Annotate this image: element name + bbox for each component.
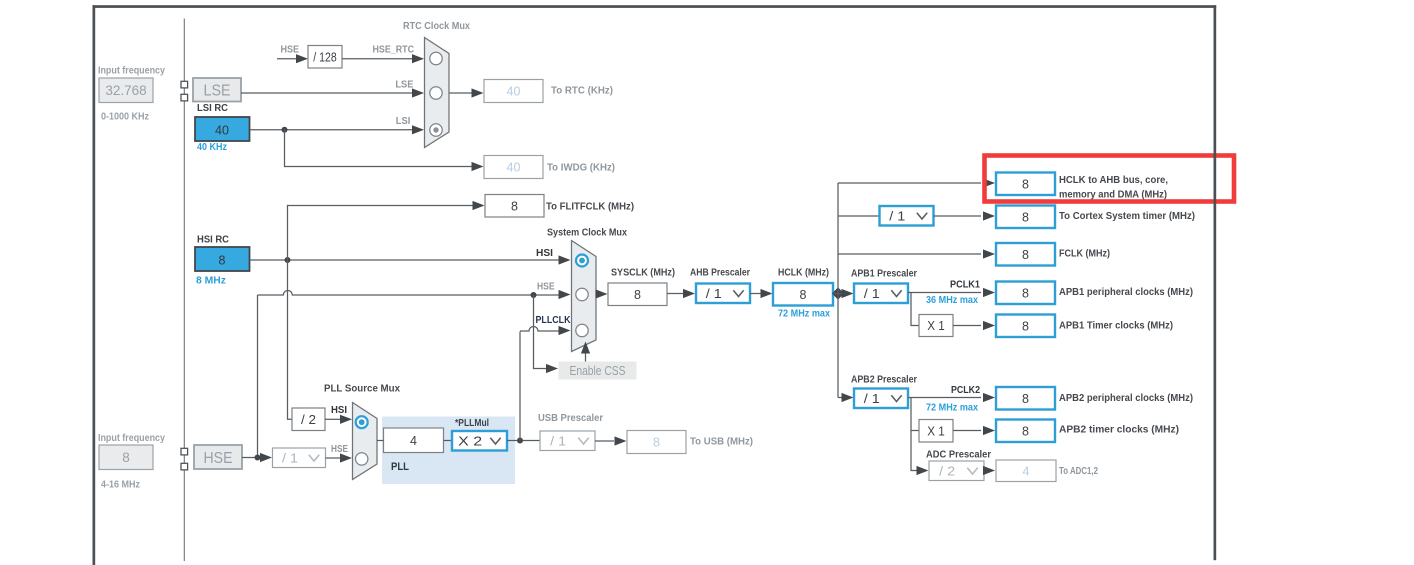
- arrow into APB2 prescaler: [842, 393, 854, 402]
- svg-text:HSE: HSE: [204, 450, 233, 467]
- svg-text:HCLK to AHB bus, core,: HCLK to AHB bus, core,: [1059, 174, 1168, 186]
- wire AHB prescaler to HCLK: [750, 293, 761, 295]
- arrow into To USB box: [615, 436, 627, 445]
- dropdown PLLMul X2: [452, 431, 507, 451]
- output box APB2 timer value 8: [996, 420, 1055, 443]
- wire APB1 to PCLK1 output: [908, 292, 981, 294]
- svg-text:*PLLMul: *PLLMul: [455, 418, 489, 429]
- pin square HSE top: [181, 448, 188, 455]
- svg-text:/ 1: / 1: [889, 209, 905, 223]
- svg-text:8: 8: [122, 450, 130, 465]
- svg-text:AHB Prescaler: AHB Prescaler: [690, 267, 750, 279]
- wire LSI branch to IWDG: [285, 130, 473, 167]
- arrow into APB2 peripheral box: [983, 393, 995, 402]
- wire APB2 branch to X1: [911, 430, 919, 432]
- pin square LSE top: [181, 81, 188, 88]
- svg-text:SYSCLK (MHz): SYSCLK (MHz): [611, 267, 675, 279]
- svg-text:8: 8: [1022, 392, 1029, 406]
- svg-text:/ 1: / 1: [282, 451, 298, 465]
- wire APB1 branch to X1: [911, 293, 919, 326]
- svg-text:8: 8: [634, 288, 641, 302]
- svg-text:HSE: HSE: [331, 443, 348, 455]
- oscillator LSI RC value box 40: [195, 117, 250, 141]
- svg-text:To Cortex System timer (MHz): To Cortex System timer (MHz): [1059, 210, 1195, 222]
- output box To IWDG value 40: [484, 156, 543, 179]
- arrow into /1 HSE prescaler: [260, 453, 272, 462]
- wire APB2 branch vertical: [911, 398, 917, 471]
- output box APB2 peripheral value 8: [996, 387, 1055, 410]
- input box 32.768 KHz: [99, 78, 153, 103]
- svg-text:USB Prescaler: USB Prescaler: [538, 412, 603, 424]
- svg-text:40 KHz: 40 KHz: [197, 141, 227, 153]
- arrow PLLCLK into System Clock Mux: [559, 326, 571, 335]
- svg-text:4: 4: [410, 434, 417, 448]
- wire HSE up branch: [257, 295, 259, 458]
- radio HSE input: [576, 288, 588, 300]
- svg-text:32.768: 32.768: [105, 83, 146, 98]
- svg-text:8 MHz: 8 MHz: [196, 275, 226, 287]
- mux System Clock Mux: [572, 241, 597, 352]
- svg-text:/ 1: / 1: [864, 287, 880, 301]
- svg-text:APB2 Prescaler: APB2 Prescaler: [851, 374, 917, 386]
- arrow into HCLK box: [761, 289, 773, 298]
- arrow into ADC prescaler: [917, 466, 929, 475]
- wire HCLK to APB1 prescaler: [833, 293, 843, 295]
- arrow /2 into PLL mux HSI: [340, 415, 352, 424]
- svg-text:/ 2: / 2: [301, 413, 316, 427]
- svg-text:PCLK2: PCLK2: [951, 384, 980, 396]
- svg-text:PCLK1: PCLK1: [950, 279, 980, 291]
- mux RTC Clock Mux: [425, 38, 450, 148]
- annotation red highlight rectangle: [985, 156, 1235, 202]
- arrow into FCLK box: [983, 249, 995, 258]
- arrow LSE into RTC mux: [412, 88, 424, 97]
- svg-text:/ 1: / 1: [706, 287, 722, 301]
- radio PLL HSE input: [356, 453, 368, 465]
- arrow into APB2 timer box: [983, 426, 995, 435]
- wire LSI to RTC mux: [250, 129, 415, 131]
- svg-text:To USB (MHz): To USB (MHz): [690, 436, 753, 448]
- wire Cortex prescaler to output: [934, 215, 982, 217]
- svg-text:APB1 Prescaler: APB1 Prescaler: [851, 268, 917, 280]
- svg-text:8: 8: [1022, 424, 1029, 438]
- svg-text:APB1 peripheral clocks (MHz): APB1 peripheral clocks (MHz): [1059, 286, 1193, 298]
- arrow into Enable CSS: [546, 364, 558, 373]
- svg-text:40: 40: [507, 85, 521, 99]
- svg-text:memory and DMA (MHz): memory and DMA (MHz): [1059, 189, 1167, 201]
- svg-text:8: 8: [1022, 177, 1029, 191]
- svg-text:HSE_RTC: HSE_RTC: [373, 44, 415, 56]
- svg-text:X 1: X 1: [927, 424, 945, 438]
- wire system mux output: [596, 293, 598, 295]
- dropdown AHB prescaler /1: [696, 284, 750, 304]
- dropdown Cortex prescaler /1: [880, 206, 934, 226]
- output box FCLK value 8: [996, 243, 1055, 266]
- wire HCLK vertical distribution: [837, 183, 839, 398]
- wire to Cortex prescaler: [838, 215, 880, 217]
- multiplier X1 box (APB1): [919, 315, 953, 337]
- wire /2 to PLL mux: [325, 418, 341, 420]
- svg-text:72 MHz max: 72 MHz max: [926, 402, 978, 414]
- svg-text:HSI: HSI: [331, 404, 347, 416]
- svg-text:LSE: LSE: [204, 83, 231, 100]
- svg-text:Input frequency: Input frequency: [98, 65, 165, 77]
- prescaler /2 box: [292, 408, 325, 431]
- junction HCLK diamond: [832, 287, 844, 299]
- arrow HSI into System Clock Mux: [559, 255, 571, 264]
- frame top border: [93, 5, 1217, 8]
- svg-text:72 MHz max: 72 MHz max: [778, 308, 830, 320]
- arrow into To FLITFCLK box: [473, 201, 485, 210]
- wire RTC mux output: [450, 92, 473, 94]
- wire X1 to APB2 timer output: [953, 430, 981, 432]
- oscillator HSE box: [194, 445, 242, 469]
- junction PLLCLK node: [517, 438, 523, 444]
- junction LSI branch: [282, 127, 288, 133]
- output box APB1 timer value 8: [996, 315, 1055, 338]
- wire X1 to APB1 timer output: [953, 325, 981, 327]
- svg-text:8: 8: [219, 254, 226, 268]
- wire /1 to PLL mux: [326, 457, 341, 459]
- dropdown ADC prescaler /2 (disabled): [929, 461, 984, 481]
- output box To FLITFCLK value 8: [485, 195, 544, 218]
- svg-text:PLL: PLL: [391, 461, 409, 473]
- svg-text:X 1: X 1: [927, 319, 945, 333]
- svg-text:X 2: X 2: [458, 434, 482, 448]
- svg-text:4-16 MHz: 4-16 MHz: [101, 479, 140, 491]
- output box HCLK to AHB value 8: [996, 173, 1055, 196]
- radio PLL HSI input (selected): [356, 416, 368, 428]
- svg-text:/ 1: / 1: [550, 434, 566, 448]
- output box APB1 peripheral value 8: [996, 282, 1055, 305]
- svg-text:HCLK (MHz): HCLK (MHz): [778, 267, 829, 279]
- arrow into APB1 peripheral box: [983, 288, 995, 297]
- wire PLLMul output to USB prescaler: [507, 440, 540, 442]
- mux PLL Source Mux: [353, 403, 378, 480]
- svg-text:8: 8: [653, 436, 660, 450]
- oscillator LSE box: [193, 78, 241, 102]
- svg-text:8: 8: [800, 288, 807, 302]
- wire PLL mux to 4 box: [377, 440, 384, 442]
- arrow into HCLK to AHB box: [983, 178, 995, 187]
- svg-text:LSI RC: LSI RC: [197, 102, 228, 114]
- svg-text:HSE: HSE: [537, 281, 555, 293]
- arrow into To ADC box: [983, 466, 995, 475]
- dropdown APB1 prescaler /1: [854, 284, 908, 304]
- arrow into /128: [296, 54, 308, 63]
- arrow /1 into PLL mux HSE: [340, 453, 352, 462]
- junction HSE output: [255, 455, 261, 461]
- value box HCLK 8: [773, 283, 833, 306]
- svg-text:System Clock Mux: System Clock Mux: [547, 227, 627, 239]
- value box SYSCLK 8: [608, 283, 667, 306]
- svg-text:To FLITFCLK (MHz): To FLITFCLK (MHz): [546, 201, 634, 213]
- junction HSE node at CSS branch: [531, 292, 537, 298]
- svg-text:4: 4: [1023, 464, 1030, 478]
- prescaler /128 box: [308, 46, 342, 69]
- arrow HSE_RTC into RTC mux: [412, 54, 424, 63]
- wire PLLCLK vertical: [519, 332, 521, 441]
- svg-text:/ 1: / 1: [864, 392, 880, 406]
- arrow Enable CSS into mux bottom: [581, 342, 590, 354]
- svg-text:40: 40: [507, 161, 521, 175]
- radio HSI input (selected): [576, 255, 588, 267]
- wire to FCLK output: [838, 253, 981, 255]
- svg-text:PLL Source Mux: PLL Source Mux: [324, 383, 400, 395]
- arrow into To IWDG box: [472, 162, 484, 171]
- wire HSI branch up to FLITFCLK: [288, 206, 474, 261]
- svg-text:8: 8: [1022, 286, 1029, 300]
- wire HSE box to /1: [242, 457, 260, 459]
- svg-text:0-1000 KHz: 0-1000 KHz: [101, 111, 149, 123]
- arrow into To Cortex box: [983, 211, 995, 220]
- svg-text:HSE: HSE: [281, 44, 300, 56]
- svg-text:LSI: LSI: [396, 115, 411, 127]
- radio LSE input: [430, 87, 442, 99]
- arrow into APB1 timer box: [983, 321, 995, 330]
- pin square HSE bottom: [181, 463, 188, 470]
- frame right border: [1214, 5, 1217, 560]
- svg-text:/ 128: / 128: [313, 50, 337, 64]
- oscillator HSI RC value box 8: [195, 247, 250, 271]
- arrow HSE into System Clock Mux: [559, 290, 571, 299]
- svg-text:HSI: HSI: [536, 247, 553, 259]
- output box To RTC value 40: [484, 80, 543, 103]
- dropdown APB2 prescaler /1: [854, 389, 908, 409]
- svg-text:APB2 timer clocks (MHz): APB2 timer clocks (MHz): [1059, 424, 1179, 436]
- svg-text:8: 8: [511, 199, 518, 213]
- button Enable CSS: [559, 362, 637, 380]
- svg-text:RTC Clock Mux: RTC Clock Mux: [403, 20, 470, 32]
- wire ADC prescaler to output: [983, 470, 986, 472]
- radio LSI input (selected): [430, 124, 442, 136]
- pll input value box 4: [384, 428, 444, 453]
- wire 4 box to PLLMul: [444, 440, 453, 442]
- svg-text:/ 2: / 2: [939, 464, 955, 478]
- wire HSE stub to /128: [277, 58, 298, 60]
- pin square LSE bottom: [181, 94, 188, 101]
- svg-text:LSE: LSE: [395, 79, 413, 91]
- wire HSE down to Enable CSS: [534, 295, 547, 369]
- wire HSI branch down to /2: [288, 260, 293, 419]
- arrow into SYSCLK box: [596, 289, 608, 298]
- svg-text:ADC Prescaler: ADC Prescaler: [926, 449, 991, 461]
- output box To Cortex value 8: [996, 206, 1055, 229]
- svg-text:HSI RC: HSI RC: [197, 234, 229, 246]
- dropdown USB prescaler /1 (disabled): [540, 431, 595, 451]
- radio HSE_RTC input: [430, 52, 442, 64]
- svg-text:To IWDG (KHz): To IWDG (KHz): [547, 162, 615, 174]
- wire LSE to RTC mux: [241, 92, 414, 94]
- svg-text:To ADC1,2: To ADC1,2: [1059, 465, 1098, 477]
- wire HSE to System Clock Mux with hop: [258, 291, 561, 295]
- svg-text:40: 40: [215, 124, 229, 138]
- wire USB prescaler to To USB box: [595, 440, 614, 442]
- wire PLLCLK up to system mux with hop: [520, 327, 560, 332]
- radio PLLCLK input: [576, 324, 588, 336]
- dropdown HSE prescaler /1 (disabled): [273, 448, 326, 468]
- svg-text:FCLK (MHz): FCLK (MHz): [1059, 248, 1110, 260]
- svg-text:APB1 Timer clocks (MHz): APB1 Timer clocks (MHz): [1059, 320, 1173, 332]
- node rail: left input vertical line: [183, 19, 185, 562]
- arrow into To RTC box: [472, 88, 484, 97]
- svg-text:PLLCLK: PLLCLK: [536, 314, 571, 326]
- junction HSI node: [285, 257, 291, 263]
- block PLL highlighted area: [382, 417, 515, 485]
- svg-text:To RTC (KHz): To RTC (KHz): [551, 85, 613, 97]
- output box To USB value 8: [627, 431, 686, 454]
- output box To ADC value 4: [996, 460, 1056, 482]
- svg-text:Input frequency: Input frequency: [98, 432, 165, 444]
- multiplier X1 box (APB2): [919, 420, 953, 443]
- arrow into AHB prescaler: [683, 289, 695, 298]
- wire SYSCLK to AHB prescaler: [667, 293, 683, 295]
- svg-text:8: 8: [1022, 248, 1029, 262]
- svg-text:APB2 peripheral clocks (MHz): APB2 peripheral clocks (MHz): [1059, 392, 1193, 404]
- svg-text:36 MHz max: 36 MHz max: [926, 294, 978, 306]
- input box 8 MHz: [99, 445, 153, 470]
- arrow LSI into RTC mux: [412, 125, 424, 134]
- svg-text:8: 8: [1022, 210, 1029, 224]
- wire to HCLK AHB output: [838, 182, 981, 184]
- svg-text:Enable CSS: Enable CSS: [570, 364, 626, 378]
- wire /128 to RTC mux: [342, 58, 414, 60]
- wire HCLK to APB2 prescaler: [838, 397, 843, 399]
- svg-text:8: 8: [1022, 319, 1029, 333]
- arrow into APB1 prescaler: [842, 289, 854, 298]
- frame left border: [93, 5, 96, 565]
- wire HSI RC to System Clock Mux: [250, 259, 561, 261]
- wire APB2 to PCLK2 output: [908, 397, 981, 399]
- wire Enable CSS up to mux: [585, 351, 587, 362]
